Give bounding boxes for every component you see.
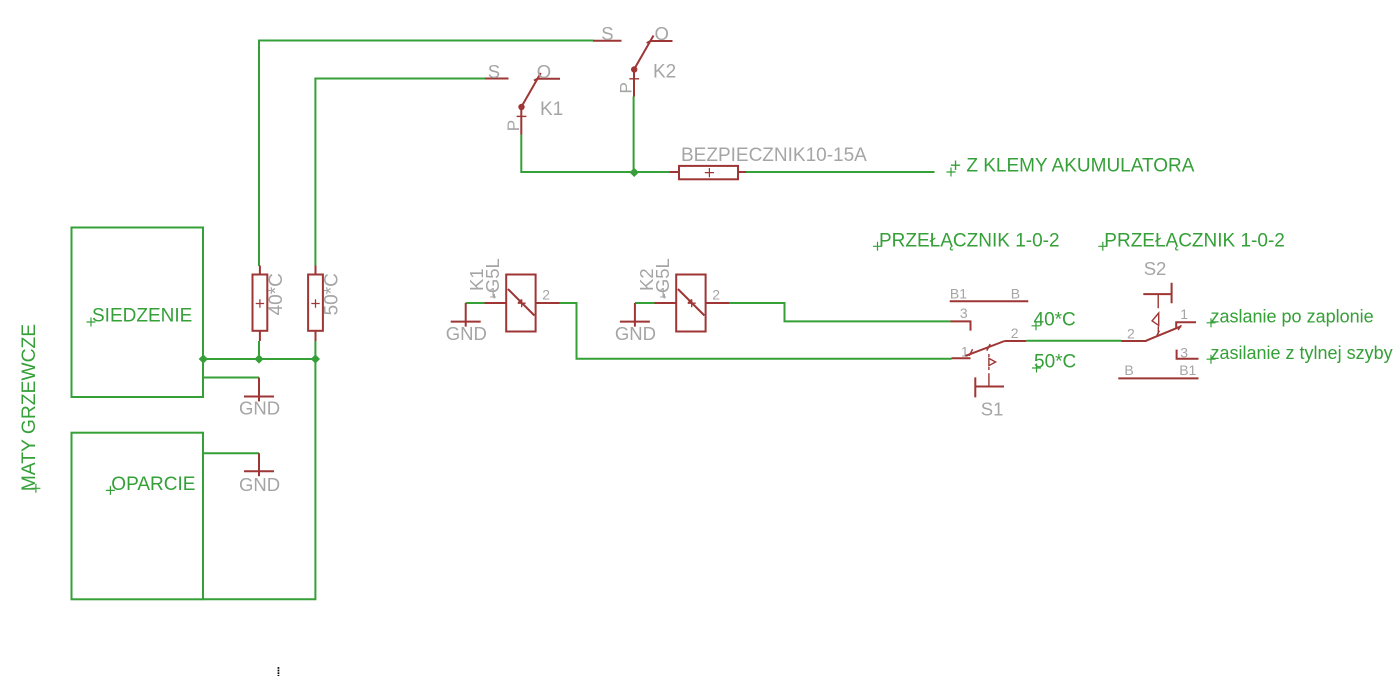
svg-text:40*C: 40*C xyxy=(266,273,287,315)
svg-text:40*C: 40*C xyxy=(1034,309,1076,330)
fuse BEZPIECZNIK pins xyxy=(670,171,746,173)
relay contact K2 arm xyxy=(634,36,654,70)
junction at supply rail xyxy=(630,168,639,177)
svg-text:PRZEŁĄCZNIK 1-0-2: PRZEŁĄCZNIK 1-0-2 xyxy=(879,230,1060,251)
svg-text:GND: GND xyxy=(239,398,280,419)
switch S1 pin3 xyxy=(951,321,971,330)
wire SIEDZENIE to GND xyxy=(203,377,259,379)
svg-text:2: 2 xyxy=(1127,325,1135,341)
svg-text:GND: GND xyxy=(239,474,280,495)
origin cross MATY GRZEWCZE xyxy=(31,484,40,493)
relay coil K2 arrow decoration xyxy=(688,299,696,307)
svg-text:-G5L: -G5L xyxy=(482,258,503,299)
switch S2 actuator arrow xyxy=(1152,313,1159,325)
fuse BEZPIECZNIK origin cross xyxy=(705,168,714,177)
relay contact K2 O stub xyxy=(651,40,673,42)
relay contact K2 arm arrowhead xyxy=(647,40,652,43)
svg-text:zasilanie z tylnej szyby: zasilanie z tylnej szyby xyxy=(1211,343,1393,363)
relay coil K2 pin2 xyxy=(706,302,730,304)
net label cross (zasilanie z tylnej szyby) xyxy=(1207,355,1216,364)
relay contact K2 pivot dot xyxy=(631,66,637,72)
fuse 50*C body xyxy=(308,275,323,331)
origin cross OPARCIE xyxy=(106,486,115,495)
svg-text:B: B xyxy=(1011,285,1020,301)
ground GND (K2 coil) xyxy=(634,303,636,327)
relay contact K1 P pin xyxy=(520,107,522,135)
wire 40C fuse bottom xyxy=(258,341,260,359)
net label + Z KLEMY AKUMULATORA cross xyxy=(947,168,956,177)
switch S1 B1-B bar xyxy=(950,300,1029,302)
switch S2 arm tick mid xyxy=(1157,331,1160,336)
wire 50C fuse bottom down and around to OPARCIE xyxy=(204,341,316,599)
svg-text:2: 2 xyxy=(542,286,550,302)
junction bus right xyxy=(311,354,320,363)
svg-text:O: O xyxy=(655,23,669,44)
wire K2 coil pin1 to GND xyxy=(635,302,655,304)
svg-text:BEZPIECZNIK10-15A: BEZPIECZNIK10-15A xyxy=(681,145,867,166)
relay contact K1 pin tick xyxy=(517,115,527,117)
fuse 40*C pins xyxy=(259,266,261,342)
svg-text:GND: GND xyxy=(615,323,656,344)
wire OPARCIE to GND xyxy=(203,452,259,454)
svg-text:+ Z KLEMY AKUMULATORA: + Z KLEMY AKUMULATORA xyxy=(950,156,1195,177)
wire S1 pin2 to S2 pin2 xyxy=(1026,340,1121,342)
relay contact K1 arm xyxy=(521,73,541,107)
wire net N$2 (50C fuse to K1 S) xyxy=(315,79,485,267)
svg-text:K1: K1 xyxy=(540,99,563,120)
svg-text:P: P xyxy=(504,120,523,131)
svg-text:PRZEŁĄCZNIK 1-0-2: PRZEŁĄCZNIK 1-0-2 xyxy=(1104,230,1285,251)
relay coil K2 body xyxy=(676,275,705,332)
switch S2 pin1 xyxy=(1176,322,1196,328)
wire K2 P leg xyxy=(633,97,635,173)
svg-text:S1: S1 xyxy=(981,399,1004,420)
svg-text:O: O xyxy=(537,61,551,82)
svg-text:50*C: 50*C xyxy=(322,273,343,315)
origin cross PRZELACZNIK 2 xyxy=(1098,242,1107,251)
relay contact K2 P pin xyxy=(633,70,635,97)
switch S2 arm xyxy=(1146,326,1181,340)
svg-text:1: 1 xyxy=(1180,306,1188,322)
relay coil K1 pin2 xyxy=(536,302,560,304)
fuse 50*C pins xyxy=(315,266,317,342)
wire net N$1 top (40C fuse to K2 S) xyxy=(259,41,594,267)
relay contact K2 pin tick xyxy=(629,78,639,80)
switch S2 actuator T-bar xyxy=(1143,283,1171,304)
svg-text:50*C: 50*C xyxy=(1034,351,1076,372)
origin cross PRZELACZNIK 1 xyxy=(873,242,882,251)
relay coil K1 arrow decoration xyxy=(518,299,526,307)
switch S2 B-B1 bar xyxy=(1118,377,1198,379)
fuse 40*C body xyxy=(253,275,268,331)
net label cross (40*C near S1) xyxy=(1032,321,1041,330)
fuse 40*C origin cross xyxy=(256,299,264,307)
wire K1 coil pin2 to S1 pin1 xyxy=(560,303,952,359)
svg-text:3: 3 xyxy=(960,305,968,321)
svg-text:3: 3 xyxy=(1180,345,1188,361)
relay contact K1 O stub xyxy=(538,78,561,80)
origin cross SIEDZENIE xyxy=(87,318,96,327)
switch S1 actuator arrow xyxy=(989,358,996,365)
svg-text:P: P xyxy=(617,82,636,93)
fuse BEZPIECZNIK body xyxy=(679,166,738,179)
svg-text:S: S xyxy=(488,61,500,82)
svg-text:2: 2 xyxy=(1011,325,1019,341)
svg-text:MATY GRZEWCZE: MATY GRZEWCZE xyxy=(19,324,40,492)
junction bus mid xyxy=(254,354,263,363)
switch S1 actuator T-bar xyxy=(975,377,1004,397)
relay coil K2 pin1 xyxy=(655,302,677,304)
net label cross (50*C near S1) xyxy=(1032,364,1041,373)
relay coil K2 diagonal xyxy=(678,289,705,316)
relay contact K1 arm arrowhead xyxy=(534,78,539,81)
switch S1 actuator dashed link xyxy=(988,354,990,386)
switch S2 arm tick near pin1 xyxy=(1178,325,1181,330)
wire K1 P leg to supply rail xyxy=(521,135,670,173)
box SIEDZENIE xyxy=(72,228,204,398)
relay contact K1 S stub xyxy=(485,78,509,80)
svg-text:S2: S2 xyxy=(1144,258,1167,279)
svg-text:B: B xyxy=(1124,362,1133,378)
relay contact K1 pivot dot xyxy=(518,104,524,110)
switch S1 arm tick mid xyxy=(987,344,990,351)
cursor dots bottom xyxy=(278,667,280,676)
relay coil K1 diagonal xyxy=(508,289,535,316)
wire fuse to +Z KLEMY endpoint xyxy=(746,171,935,173)
svg-text:-G5L: -G5L xyxy=(652,258,673,299)
switch S2 pin3 xyxy=(1177,350,1199,359)
svg-text:2: 2 xyxy=(712,286,720,302)
switch S1 pin2 xyxy=(1005,340,1027,342)
svg-text:SIEDZENIE: SIEDZENIE xyxy=(92,306,192,327)
switch S1 pin1 xyxy=(952,357,971,359)
wire bus SIEDZENIE to fuses xyxy=(203,358,315,360)
ground GND (bus) xyxy=(258,378,260,402)
svg-text:zaslanie po zaplonie: zaslanie po zaplonie xyxy=(1211,307,1374,327)
svg-text:K2: K2 xyxy=(653,62,676,83)
net label cross (zaslanie po zaplonie) xyxy=(1207,318,1216,327)
svg-text:GND: GND xyxy=(446,323,487,344)
switch S1 arm tick near pin1 xyxy=(969,349,972,356)
svg-text:B1: B1 xyxy=(950,285,967,301)
svg-text:1: 1 xyxy=(961,344,969,360)
relay contact K2 S stub xyxy=(593,40,622,42)
switch S2 actuator dashed link xyxy=(1157,294,1159,334)
wire K1 coil pin1 to GND xyxy=(466,302,485,304)
svg-text:OPARCIE: OPARCIE xyxy=(111,474,195,495)
fuse 50*C origin cross xyxy=(311,299,319,307)
wire K2 coil pin2 to S1 pin3 xyxy=(729,303,950,321)
junction bus left xyxy=(199,354,208,363)
ground GND (oparcie) xyxy=(258,453,260,476)
ground GND (K1 coil) xyxy=(465,303,467,327)
box OPARCIE xyxy=(72,433,204,600)
svg-text:B1: B1 xyxy=(1179,362,1196,378)
switch S1 arm xyxy=(965,341,1004,356)
relay coil K1 body xyxy=(506,275,535,332)
relay coil K1 pin1 xyxy=(485,302,507,304)
svg-text:S: S xyxy=(601,23,613,44)
switch S2 pin2 xyxy=(1121,340,1147,342)
